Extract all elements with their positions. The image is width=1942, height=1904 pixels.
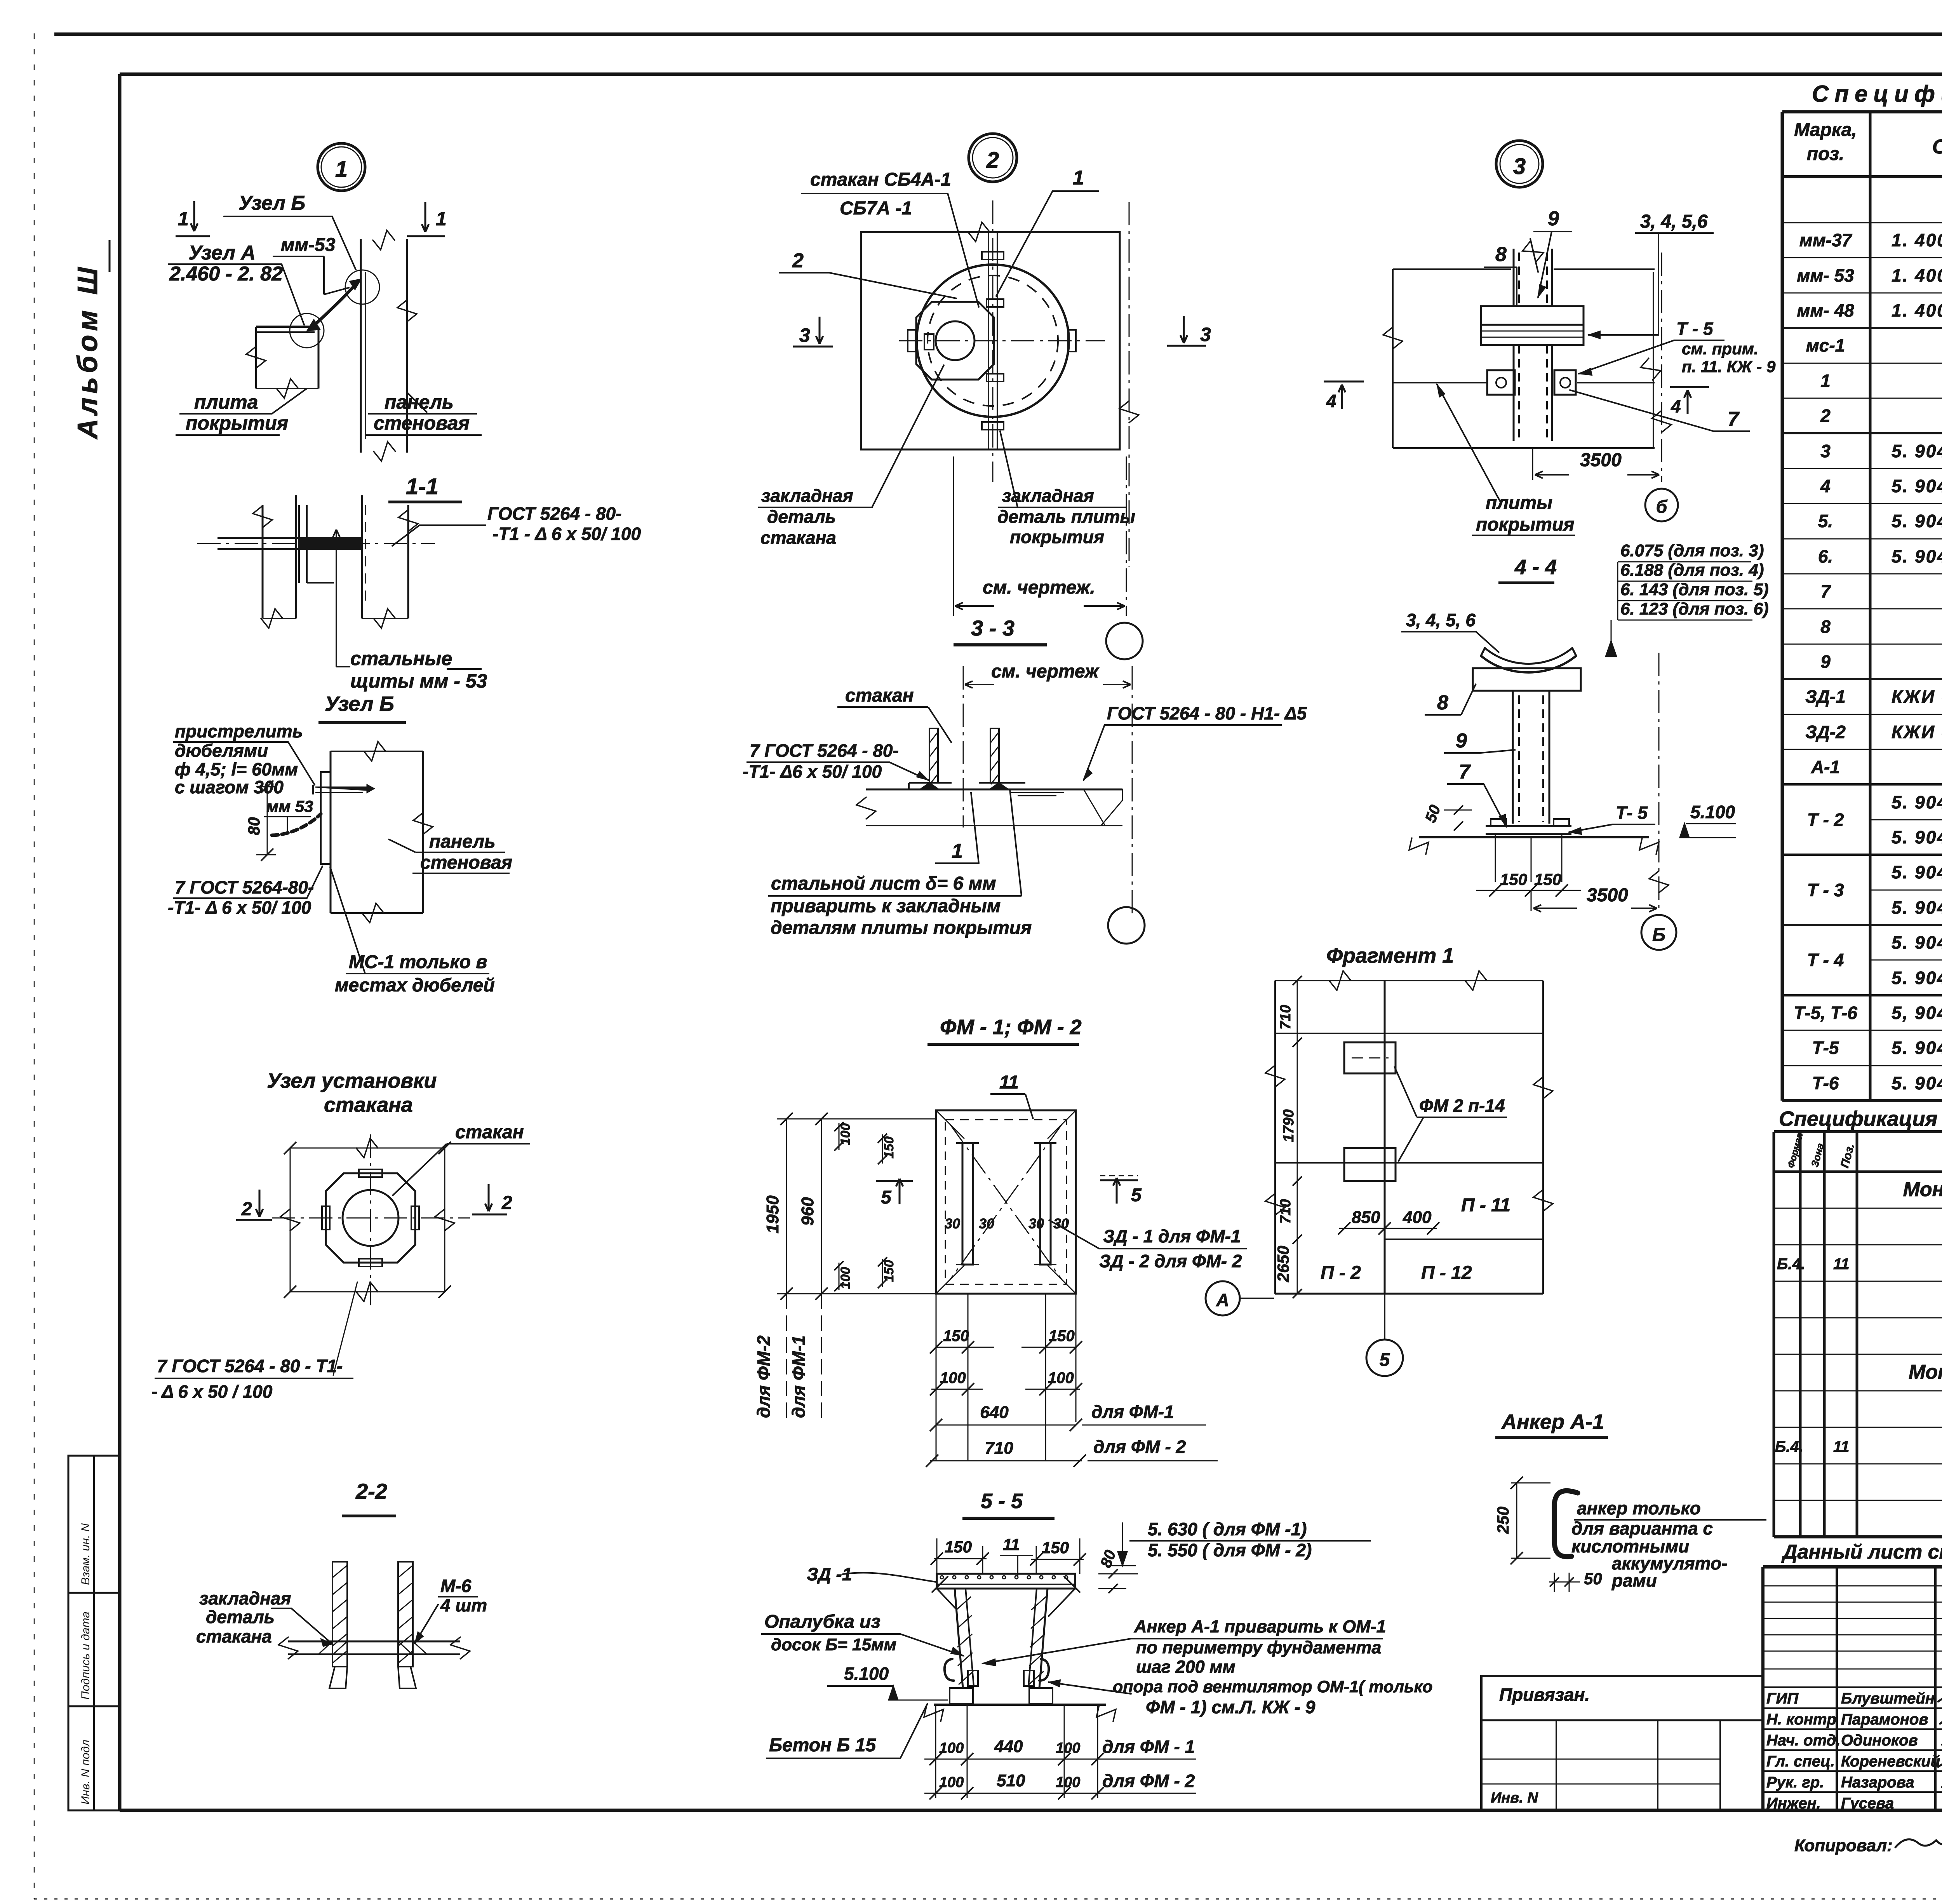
stakan walls (3-3) — [909, 728, 1025, 789]
dim 50 (anchor) — [1549, 1570, 1602, 1592]
fragment 1 grid — [1265, 971, 1553, 1294]
row Т-5,Т-6 — [1794, 1003, 1942, 1023]
plan ФМ-1 ФМ-2 title — [927, 1016, 1082, 1044]
spec table 1 title: Спецификация металлических элементов — [1812, 81, 1942, 107]
title block signature grid — [1763, 1567, 1942, 1810]
svg-text:3500: 3500 — [1580, 450, 1622, 470]
svg-text:Б.4.: Б.4. — [1777, 1256, 1805, 1273]
svg-text:250: 250 — [1494, 1507, 1512, 1534]
svg-text:ГОСТ 5264 - 80-: ГОСТ 5264 - 80- — [487, 503, 621, 524]
row 9 — [1820, 645, 1942, 679]
svg-text:6.: 6. — [1818, 546, 1833, 566]
label закладная деталь плиты покрытия (detail 2) — [997, 431, 1135, 547]
svg-text:мм- 53: мм- 53 — [1797, 265, 1854, 286]
row ЗД-1 — [1805, 686, 1942, 707]
slab plan outline (detail 3) — [1383, 269, 1661, 448]
row ЗД-2 — [1805, 722, 1942, 742]
svg-text:150: 150 — [943, 1327, 969, 1345]
svg-text:мм- 48: мм- 48 — [1797, 300, 1854, 321]
svg-text:Обозначение: Обозначение — [1932, 136, 1942, 158]
svg-text:3, 4, 5,6: 3, 4, 5,6 — [1640, 211, 1708, 232]
svg-text:Спецификация: Спецификация — [1812, 81, 1942, 107]
svg-text:местах дюбелей: местах дюбелей — [335, 975, 495, 996]
cover plate square (detail 2) — [861, 222, 1120, 449]
bottom dims 100 440 100 для ФМ-1 (5-5) — [924, 1705, 1196, 1798]
svg-text:Инв. N: Инв. N — [1491, 1790, 1538, 1806]
svg-text:стеновая: стеновая — [374, 412, 470, 434]
detail Узел установки стакана title — [267, 1069, 437, 1117]
svg-text:5. 904 - 1. В.0: 5. 904 - 1. В.0 — [1892, 1038, 1942, 1058]
svg-text:для ФМ-1: для ФМ-1 — [788, 1335, 809, 1418]
roof slab (drawing 1) — [246, 327, 318, 398]
svg-text:Узел установки: Узел установки — [267, 1069, 437, 1092]
svg-text:3500: 3500 — [1587, 885, 1628, 906]
signatures squiggles — [1938, 1692, 1942, 1811]
svg-text:30: 30 — [945, 1216, 960, 1232]
svg-text:деталь: деталь — [206, 1607, 275, 1627]
label 2 (detail 2) — [779, 249, 956, 298]
label стакан (3-3) — [837, 685, 952, 743]
svg-text:для ФМ - 2: для ФМ - 2 — [1102, 1771, 1195, 1791]
svg-text:П - 11: П - 11 — [1461, 1195, 1510, 1216]
ground line (4-4) — [1409, 837, 1659, 854]
svg-text:Анкер А-1: Анкер А-1 — [1501, 1410, 1604, 1434]
svg-text:Анкер А-1 приварить к ОМ-1: Анкер А-1 приварить к ОМ-1 — [1134, 1617, 1386, 1636]
label ФМ2 п-14 (fragment 1) — [1394, 1066, 1507, 1162]
svg-text:100: 100 — [1056, 1774, 1080, 1791]
svg-text:9: 9 — [1820, 652, 1831, 672]
svg-text:МС-1 только в: МС-1 только в — [349, 952, 487, 972]
svg-text:Рук. гр.: Рук. гр. — [1766, 1774, 1824, 1791]
svg-text:4: 4 — [1820, 476, 1831, 496]
svg-text:пристрелить: пристрелить — [175, 721, 303, 741]
svg-text:Взам. ин. N: Взам. ин. N — [79, 1523, 92, 1585]
svg-text:1. 400 - 7: 1. 400 - 7 — [1892, 230, 1942, 250]
svg-text:4 шт: 4 шт — [440, 1595, 487, 1615]
svg-text:см. чертеж: см. чертеж — [991, 661, 1100, 682]
svg-text:мм 53: мм 53 — [266, 797, 313, 815]
label 3,4,5,6 (4-4) — [1401, 610, 1499, 653]
svg-text:150: 150 — [1500, 870, 1527, 888]
label стакан (установка) — [392, 1122, 530, 1196]
svg-text:5. 904 - 1. В.0: 5. 904 - 1. В.0 — [1892, 897, 1942, 918]
row Т-5 — [1812, 1038, 1942, 1058]
label 7 ГОСТ 5264-80 (detail Узел Б) — [168, 866, 322, 918]
label мм 53 (detail Узел Б) — [264, 797, 313, 831]
svg-text:стакан: стакан — [455, 1122, 524, 1143]
svg-text:Инжен.: Инжен. — [1766, 1795, 1821, 1812]
svg-text:Одиноков: Одиноков — [1841, 1732, 1918, 1749]
row 5 — [1818, 511, 1942, 531]
label 9 (detail 3) — [1533, 207, 1572, 297]
left dimensions (plan ФМ) — [753, 1113, 936, 1422]
svg-text:7 ГОСТ 5264 - 80-: 7 ГОСТ 5264 - 80- — [750, 740, 899, 761]
svg-text:150: 150 — [1042, 1538, 1069, 1557]
label Узел Б with leader — [224, 192, 356, 270]
svg-text:7: 7 — [1728, 408, 1740, 430]
label закладная деталь стакана (2-2) — [196, 1588, 332, 1646]
svg-text:Марка,: Марка, — [1794, 120, 1857, 140]
svg-text:11: 11 — [1833, 1256, 1850, 1273]
svg-text:щиты мм - 53: щиты мм - 53 — [350, 670, 487, 692]
bottom dimensions (plan ФМ) — [926, 1294, 1218, 1467]
svg-text:5, 904 - 1. В.0: 5, 904 - 1. В.0 — [1892, 1003, 1942, 1023]
label панель стеновая — [365, 391, 482, 435]
note Бетон Б 15 (5-5) — [766, 1704, 927, 1758]
label 7 ГОСТ 5264-80-Т1 (установка) — [151, 1356, 353, 1402]
svg-text:Парамонов: Парамонов — [1841, 1711, 1928, 1728]
section mark 1 right — [407, 202, 447, 236]
svg-text:для варианта с: для варианта с — [1571, 1518, 1713, 1538]
svg-text:3: 3 — [1200, 324, 1211, 345]
note Анкер А-1 приварить (5-5) — [983, 1617, 1433, 1717]
row Т-3 подкладка — [1892, 862, 1942, 882]
attachment box Привязан — [1481, 1676, 1763, 1810]
label 1 (detail 2) — [996, 167, 1099, 296]
svg-text:11: 11 — [999, 1072, 1019, 1093]
svg-text:Альбом Ш: Альбом Ш — [72, 263, 103, 440]
detail Узел Б title — [318, 692, 406, 723]
section mark 2 left — [236, 1190, 272, 1220]
svg-text:ФМ - 1) см.Л. КЖ - 9: ФМ - 1) см.Л. КЖ - 9 — [1146, 1697, 1316, 1717]
label 8 (detail 3) — [1484, 243, 1517, 307]
svg-text:стакана: стакана — [760, 528, 836, 548]
svg-text:5. 904 - 1 В.0: 5. 904 - 1 В.0 — [1892, 827, 1942, 847]
dim 3500 (4-4) — [1531, 885, 1657, 912]
note стальной лист δ=6мм (3-3) — [768, 789, 1032, 938]
svg-text:Бетон Б 15: Бетон Б 15 — [769, 1735, 876, 1756]
title block main frame — [1763, 1567, 1942, 1810]
label стакан СБ4А-1 СБ7А-1 — [801, 169, 979, 307]
svg-text:4 - 4: 4 - 4 — [1514, 556, 1557, 579]
svg-text:-Т1 - Δ 6 х 50/ 100: -Т1 - Δ 6 х 50/ 100 — [492, 524, 641, 544]
centerlines (установка стакана) — [272, 1134, 470, 1375]
section mark 5 left (plan ФМ) — [876, 1179, 913, 1208]
anchor symbols inside section (5-5) — [945, 1659, 1049, 1686]
svg-text:6.075 (для поз. 3): 6.075 (для поз. 3) — [1620, 541, 1764, 560]
row Т-4 подкладка — [1892, 932, 1942, 953]
svg-text:5. 904 - 1. В.0: 5. 904 - 1. В.0 — [1892, 1073, 1942, 1093]
base plate (4-4) — [1486, 819, 1571, 834]
svg-text:3: 3 — [1820, 441, 1831, 461]
svg-text:ЗД-2: ЗД-2 — [1805, 722, 1846, 742]
svg-text:8: 8 — [1495, 243, 1507, 266]
svg-text:для ФМ-1: для ФМ-1 — [1091, 1402, 1174, 1422]
svg-text:КЖИ - 47. 00: КЖИ - 47. 00 — [1892, 722, 1942, 742]
section 3-3 title — [954, 616, 1047, 645]
svg-text:Т-6: Т-6 — [1812, 1073, 1839, 1093]
svg-text:Опалубка из: Опалубка из — [764, 1611, 881, 1632]
svg-text:ЗД - 2 для ФМ- 2: ЗД - 2 для ФМ- 2 — [1099, 1251, 1242, 1271]
svg-text:150: 150 — [1049, 1327, 1075, 1345]
svg-text:1790: 1790 — [1281, 1109, 1297, 1142]
svg-text:-Т1- Δ 6 х 50/ 100: -Т1- Δ 6 х 50/ 100 — [168, 897, 311, 918]
dims 850 400 (fragment 1) — [1338, 1208, 1439, 1235]
anchor J-bar — [1554, 1491, 1578, 1556]
svg-text:панель: панель — [385, 391, 454, 413]
svg-text:Т- 5: Т- 5 — [1616, 803, 1648, 823]
row 1 — [1820, 364, 1942, 399]
svg-text:710: 710 — [985, 1439, 1013, 1458]
svg-text:2650: 2650 — [1274, 1246, 1292, 1282]
label стальные щиты ММ-53 with leader — [333, 530, 487, 692]
row: сетка С 5ВрТ-100 (ФМ-2) — [1775, 1431, 1942, 1467]
svg-text:Узел Б: Узел Б — [238, 192, 305, 214]
svg-text:5. 550 ( для ФМ - 2): 5. 550 ( для ФМ - 2) — [1148, 1540, 1312, 1560]
svg-text:покрытия: покрытия — [1010, 527, 1104, 547]
spec table 1 grid — [1782, 112, 1942, 1101]
svg-text:8: 8 — [1437, 692, 1448, 714]
svg-text:3, 4, 5, 6: 3, 4, 5, 6 — [1406, 610, 1476, 630]
svg-text:1. 400 - 7: 1. 400 - 7 — [1892, 300, 1942, 321]
curved sheet MM-53 (detail Узел Б) — [272, 814, 321, 835]
svg-text:Привязан.: Привязан. — [1499, 1685, 1590, 1705]
label Узел А 2.460-2.82 with leader — [168, 242, 304, 325]
axis line + circle Б (4-4) — [1641, 653, 1676, 950]
section mark 5 right (plan ФМ) — [1100, 1176, 1142, 1205]
label 9 (4-4) — [1444, 730, 1516, 753]
svg-text:Т-5: Т-5 — [1812, 1038, 1839, 1058]
dimension 80 (detail Узел Б) — [245, 780, 276, 861]
svg-text:Спецификация на монолитные ж: Спецификация на монолитные железобетонны… — [1779, 1107, 1942, 1131]
MC-1 plate (detail Узел Б) — [321, 772, 331, 864]
svg-text:Узел А: Узел А — [188, 242, 256, 264]
top slab (5-5) — [932, 1574, 1080, 1592]
svg-text:710: 710 — [1277, 1005, 1294, 1030]
svg-text:ф 4,5; l= 60мм: ф 4,5; l= 60мм — [175, 759, 298, 779]
note анкер только для варианта — [1571, 1498, 1766, 1590]
svg-text:4: 4 — [1671, 396, 1681, 416]
svg-text:150: 150 — [1534, 870, 1561, 888]
dim 250 (anchor) — [1494, 1477, 1550, 1564]
svg-text:для ФМ-2: для ФМ-2 — [753, 1335, 774, 1418]
svg-text:Б.4.: Б.4. — [1775, 1438, 1803, 1455]
svg-text:100: 100 — [940, 1369, 966, 1387]
svg-text:Инв. N подл: Инв. N подл — [79, 1740, 92, 1805]
svg-text:рами: рами — [1611, 1570, 1657, 1590]
foundation marks ФМ2 (fragment 1) — [1344, 1042, 1396, 1181]
label Т-5 см.прим (detail 3) — [1579, 319, 1776, 376]
svg-text:-Т1- Δ6 х 50/ 100: -Т1- Δ6 х 50/ 100 — [743, 761, 882, 782]
dimension см. чертеж (detail 2) — [954, 456, 1126, 616]
channel below plate (detail 3) — [1514, 345, 1552, 441]
svg-text:5.100: 5.100 — [844, 1664, 889, 1684]
svg-text:дюбелями: дюбелями — [175, 740, 268, 761]
svg-text:по периметру фундамента: по периметру фундамента — [1136, 1637, 1381, 1657]
wall panels plan (section 1-1) — [253, 495, 418, 628]
svg-text:9: 9 — [1548, 207, 1559, 230]
svg-text:для ФМ - 1: для ФМ - 1 — [1102, 1737, 1195, 1757]
anchor А-1 title — [1495, 1410, 1608, 1437]
svg-text:см. чертеж.: см. чертеж. — [983, 577, 1095, 598]
centerlines (detail 2) — [899, 200, 1139, 567]
svg-text:150: 150 — [945, 1538, 972, 1556]
section 4-4 title — [1498, 556, 1557, 583]
row Т-2 тяга — [1892, 827, 1942, 847]
svg-text:11: 11 — [1003, 1535, 1020, 1554]
svg-text:мс-1: мс-1 — [1806, 335, 1845, 355]
svg-text:Монолитный фундамент ФМ-2: Монолитный фундамент ФМ-2 (2 шт) — [1909, 1361, 1942, 1383]
svg-text:5. 904 - 1. В.0: 5. 904 - 1. В.0 — [1892, 441, 1942, 461]
label панель стеновая (detail Узел Б) — [388, 831, 512, 873]
svg-text:2-2: 2-2 — [355, 1479, 387, 1503]
row Т-6 — [1812, 1073, 1942, 1093]
row 6 — [1818, 546, 1942, 566]
svg-text:5.100: 5.100 — [1690, 802, 1735, 822]
svg-text:3 - 3: 3 - 3 — [971, 616, 1015, 640]
row: сетка С 5Вр-100 (ФМ-1) — [1777, 1249, 1942, 1284]
row 7 — [1820, 575, 1942, 609]
row А-1 — [1811, 757, 1942, 777]
svg-text:закладная: закладная — [199, 1588, 291, 1608]
svg-text:850: 850 — [1352, 1208, 1380, 1227]
svg-text:5: 5 — [1131, 1185, 1142, 1205]
row Т-3 тяга — [1892, 897, 1942, 918]
svg-text:шаг 200 мм: шаг 200 мм — [1136, 1657, 1236, 1677]
dim 80 (5-5) — [1097, 1548, 1138, 1593]
svg-text:6. 143 (для поз. 5): 6. 143 (для поз. 5) — [1620, 580, 1769, 599]
labels 30 (plan ФМ) — [945, 1216, 1069, 1232]
slab (2-2) — [278, 1637, 470, 1659]
svg-text:стеновая: стеновая — [420, 852, 512, 873]
svg-text:- Δ 6 х 50 / 100: - Δ 6 х 50 / 100 — [151, 1381, 273, 1402]
left dims 710 1790 710 2650 (fragment 1) — [1274, 976, 1302, 1298]
svg-text:7: 7 — [1459, 761, 1471, 783]
slab (3-3) — [856, 789, 1122, 826]
svg-text:покрытия: покрытия — [1476, 514, 1575, 535]
footing pads and ground (5-5) — [924, 1688, 1116, 1721]
svg-text:150: 150 — [882, 1260, 896, 1282]
plate stack (detail 3) — [1481, 306, 1584, 345]
view circle (3-3) — [1108, 907, 1145, 944]
anchor plates (plan ФМ) — [956, 1143, 1056, 1265]
svg-text:стакана: стакана — [196, 1626, 272, 1646]
spec table 2 header — [1786, 1129, 1942, 1172]
svg-text:6. 123 (для поз. 6): 6. 123 (для поз. 6) — [1620, 599, 1769, 618]
svg-text:400: 400 — [1403, 1208, 1432, 1227]
album label (Альбом III) — [72, 240, 110, 440]
svg-text:Т - 2: Т - 2 — [1807, 810, 1844, 830]
slab lines (detail 3) — [1393, 382, 1655, 383]
section 2-2 title — [342, 1479, 396, 1516]
label МС-1 только в местах дюбелей — [330, 867, 495, 996]
svg-text:стальные: стальные — [350, 648, 452, 669]
row MM-53 — [1797, 265, 1942, 286]
octagon stakan (detail 2) — [916, 302, 994, 380]
svg-text:2: 2 — [501, 1193, 512, 1213]
svg-text:8: 8 — [1820, 617, 1831, 637]
svg-text:стакана: стакана — [324, 1093, 413, 1117]
top plate (4-4) — [1473, 668, 1581, 691]
bottom dims 100 510 100 для ФМ-2 (5-5) — [924, 1771, 1196, 1799]
label плита покрытия — [176, 388, 307, 435]
dim 50 (4-4) — [1422, 803, 1472, 831]
svg-text:анкер только: анкер только — [1577, 1498, 1701, 1518]
section mark 4 left (detail 3) — [1324, 381, 1364, 411]
row 2 — [1820, 399, 1942, 434]
label плиты покрытия (detail 3) — [1437, 385, 1575, 535]
svg-text:100: 100 — [1056, 1740, 1080, 1756]
centerline (section 1-1) — [197, 543, 435, 544]
svg-text:5. 904 - 1. В.0: 5. 904 - 1. В.0 — [1892, 792, 1942, 812]
svg-text:П - 2: П - 2 — [1321, 1263, 1361, 1283]
label ГОСТ 5264-80-Н1-Δ5 (3-3) — [1084, 703, 1307, 780]
svg-text:ГОСТ 5264 - 80 - Н1- Δ5: ГОСТ 5264 - 80 - Н1- Δ5 — [1107, 703, 1307, 723]
detail 1 circle mark — [318, 143, 365, 191]
top dims 150 11 150 (5-5) — [931, 1535, 1086, 1576]
svg-text:для ФМ - 2: для ФМ - 2 — [1093, 1437, 1186, 1457]
svg-text:мм-37: мм-37 — [1799, 230, 1853, 250]
svg-text:деталь плиты: деталь плиты — [997, 507, 1135, 527]
label 8 (4-4) — [1425, 684, 1476, 715]
svg-text:2.460 - 2. 82: 2.460 - 2. 82 — [169, 263, 283, 285]
svg-text:5. 630 ( для ФМ -1): 5. 630 ( для ФМ -1) — [1148, 1519, 1307, 1539]
svg-text:плиты: плиты — [1486, 493, 1552, 513]
svg-text:2: 2 — [1820, 406, 1831, 426]
main circle (detail 2) — [917, 265, 1069, 417]
svg-text:7 ГОСТ 5264-80-: 7 ГОСТ 5264-80- — [175, 877, 314, 897]
svg-text:поз.: поз. — [1807, 144, 1844, 164]
svg-text:2: 2 — [986, 148, 999, 173]
svg-text:5: 5 — [881, 1187, 892, 1208]
label ЗД-1 (5-5) — [807, 1564, 936, 1584]
label мм-53 with leader — [273, 235, 350, 294]
label 11 (plan ФМ) — [990, 1072, 1033, 1119]
svg-text:3: 3 — [1513, 154, 1526, 179]
svg-text:ФМ 2 п-14: ФМ 2 п-14 — [1419, 1096, 1505, 1116]
section mark 3 left — [793, 317, 833, 347]
svg-text:30: 30 — [979, 1216, 994, 1232]
label Т-5 (4-4) — [1569, 803, 1655, 834]
svg-text:5. 904 - 1. В.0: 5. 904 - 1. В.0 — [1892, 862, 1942, 882]
svg-text:плита: плита — [194, 391, 258, 413]
svg-text:1950: 1950 — [763, 1195, 782, 1233]
svg-text:Назарова: Назарова — [1841, 1774, 1914, 1791]
row 4 — [1820, 476, 1942, 496]
label 7 ГОСТ 5264-80-Т1 (3-3) — [743, 740, 928, 782]
detail 2 circle mark — [969, 134, 1017, 182]
axis circle 5 (fragment 1) — [1366, 1294, 1403, 1376]
svg-text:закладная: закладная — [761, 486, 853, 506]
walls (5-5) — [937, 1589, 1075, 1688]
svg-text:1: 1 — [1073, 167, 1084, 189]
axis circle б (detail 3) — [1645, 489, 1678, 521]
section mark 3 right — [1167, 316, 1211, 346]
svg-text:покрытия: покрытия — [186, 412, 288, 434]
svg-text:2: 2 — [792, 249, 804, 272]
svg-text:7 ГОСТ 5264 - 80 - Т1-: 7 ГОСТ 5264 - 80 - Т1- — [157, 1356, 343, 1376]
svg-text:1: 1 — [436, 208, 447, 230]
svg-text:2: 2 — [241, 1199, 252, 1219]
svg-text:Н. контр: Н. контр — [1766, 1711, 1836, 1728]
dowel (detail Узел Б) — [313, 785, 374, 794]
svg-text:деталь: деталь — [767, 507, 836, 527]
tabs on circle (detail 2) — [908, 252, 1076, 430]
section 5-5 title — [962, 1489, 1055, 1518]
labels П-11 П-2 П-12 (fragment 1) — [1321, 1195, 1510, 1283]
svg-text:мм-53: мм-53 — [281, 235, 336, 255]
svg-text:Монолитный фундамент ФМ-: Монолитный фундамент ФМ- 1, (2 шт) — [1903, 1178, 1942, 1201]
row Т-4 тяга — [1892, 968, 1942, 988]
svg-text:1. 400 - 7: 1. 400 - 7 — [1892, 265, 1942, 286]
svg-text:100: 100 — [838, 1123, 853, 1145]
spec table 2 grid — [1774, 1132, 1942, 1537]
foundation plan rect (ФМ) — [936, 1110, 1076, 1294]
svg-text:п. 11. КЖ - 9: п. 11. КЖ - 9 — [1682, 357, 1776, 376]
svg-text:4: 4 — [1326, 391, 1336, 411]
label 7 (4-4) — [1447, 761, 1506, 827]
svg-text:1: 1 — [952, 840, 963, 862]
